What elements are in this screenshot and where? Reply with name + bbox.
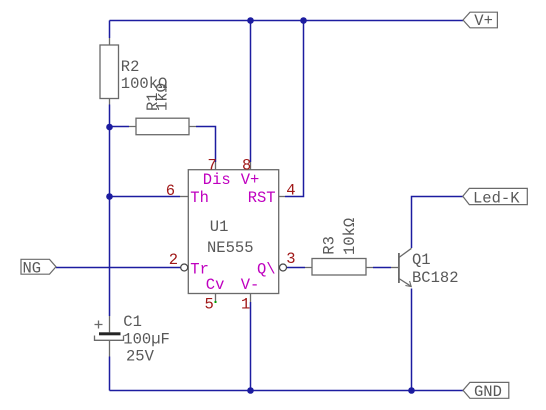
- junction rail Th: [106, 193, 113, 200]
- terminal flag NG: [21, 259, 56, 277]
- pin 8 stub: [250, 162, 252, 170]
- svg-text:Led-K: Led-K: [473, 189, 520, 207]
- wire left rail R2 bottom to C1 top: [109, 105, 111, 317]
- svg-text:4: 4: [286, 182, 295, 200]
- wire pin4 RST to top rail: [285, 21, 304, 197]
- svg-text:10kΩ: 10kΩ: [341, 218, 359, 255]
- wire Q1 emitter to bottom rail: [411, 289, 413, 391]
- wire NG to pin2 Tr: [56, 267, 181, 269]
- svg-text:8: 8: [242, 156, 251, 174]
- wire top rail to pin8: [250, 21, 252, 163]
- svg-text:V+: V+: [474, 12, 493, 30]
- svg-text:U1: U1: [210, 218, 229, 236]
- plus sign: [95, 321, 103, 329]
- pin 5 unconnected dot: [215, 301, 217, 303]
- svg-text:2: 2: [169, 251, 178, 269]
- resistor R2: [100, 38, 167, 105]
- svg-text:Q\: Q\: [257, 260, 276, 278]
- wire C1 bottom to bottom rail: [109, 357, 111, 391]
- pin 6 stub: [180, 196, 188, 198]
- pin 4 stub: [279, 196, 285, 198]
- svg-text:25V: 25V: [126, 348, 155, 366]
- top plate: [99, 332, 121, 335]
- wire top rail V+: [110, 20, 464, 22]
- svg-text:1: 1: [241, 295, 250, 313]
- op-amp U1 NE555 body: [166, 156, 296, 313]
- svg-text:100µF: 100µF: [123, 331, 170, 349]
- svg-text:6: 6: [166, 182, 175, 200]
- resistor R3: [305, 218, 373, 275]
- terminal flag V+: [463, 12, 497, 30]
- wire left rail top to R2: [109, 21, 111, 39]
- pin 2 inversion bubble: [181, 264, 188, 271]
- capacitor C1: [95, 313, 170, 366]
- wire R3 to Q1 base: [373, 267, 391, 269]
- collector diagonal: [399, 248, 412, 257]
- svg-text:V-: V-: [241, 276, 260, 294]
- wire pin1 V- to bottom rail: [250, 302, 252, 391]
- svg-text:7: 7: [208, 156, 217, 174]
- svg-text:C1: C1: [123, 313, 142, 331]
- base stub: [391, 267, 399, 269]
- transistor Q1: [391, 248, 459, 287]
- pin 7 stub: [215, 162, 217, 170]
- wire bottom rail GND: [110, 390, 464, 392]
- svg-text:Q1: Q1: [412, 251, 431, 269]
- svg-text:R3: R3: [321, 236, 339, 255]
- wire R1 left lead to rail: [110, 126, 130, 128]
- svg-text:1kΩ: 1kΩ: [154, 83, 172, 111]
- junction top rail pin8: [247, 17, 254, 24]
- wire pin3 Q to R3: [287, 267, 305, 269]
- svg-text:R2: R2: [121, 58, 140, 76]
- svg-text:BC182: BC182: [412, 269, 459, 287]
- wire rail to pin6 Th: [110, 196, 181, 198]
- emitter diagonal: [399, 279, 411, 287]
- pin 1 stub: [250, 294, 252, 303]
- junction bottom rail pin1: [247, 387, 254, 394]
- wire R1 right to pin7: [196, 127, 216, 163]
- junction rail R1: [106, 124, 113, 131]
- pin 5 stub: [215, 294, 217, 303]
- svg-text:5: 5: [205, 295, 214, 313]
- resistor R1: [129, 83, 196, 135]
- svg-text:Cv: Cv: [206, 276, 225, 294]
- pin 3 inversion bubble: [280, 264, 287, 271]
- svg-text:3: 3: [286, 250, 295, 268]
- terminal flag Led-K: [463, 188, 528, 207]
- junction bottom rail emitter: [408, 387, 415, 394]
- emitter arrow: [405, 281, 411, 287]
- junction top rail RST: [300, 17, 307, 24]
- base bar: [398, 253, 400, 283]
- svg-text:GND: GND: [474, 383, 502, 401]
- bottom cup plate: [95, 336, 124, 341]
- wire Q1 collector to Led-K: [412, 197, 464, 249]
- svg-text:RST: RST: [248, 189, 276, 207]
- svg-text:Th: Th: [190, 189, 209, 207]
- terminal flag GND: [463, 382, 509, 400]
- svg-text:NG: NG: [23, 259, 42, 277]
- svg-text:NE555: NE555: [207, 239, 254, 257]
